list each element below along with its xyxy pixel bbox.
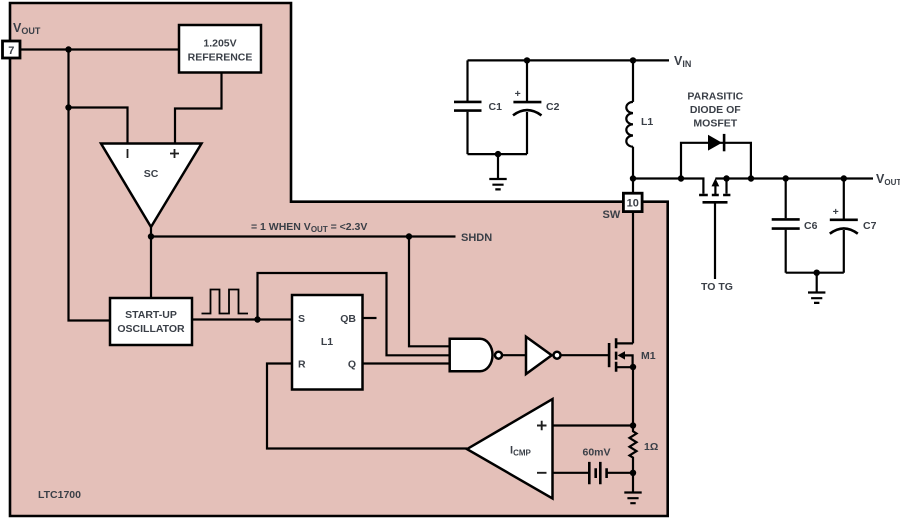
junction dot SW node [630, 175, 636, 181]
junction dot output gnd [814, 270, 820, 276]
svg-text:R: R [298, 359, 306, 371]
wire to SC minus input [69, 108, 128, 144]
svg-text:TO TG: TO TG [701, 281, 733, 293]
svg-text:= 1 WHEN VOUT = <2.3V: = 1 WHEN VOUT = <2.3V [251, 221, 367, 234]
NAND gate [450, 339, 493, 371]
wire Q to NAND [363, 362, 450, 364]
svg-text:OSCILLATOR: OSCILLATOR [117, 323, 185, 335]
svg-text:1.205V: 1.205V [203, 38, 236, 50]
svg-text:7: 7 [8, 45, 14, 57]
svg-text:PARASITIC: PARASITIC [687, 91, 743, 103]
inductor L1 [626, 60, 653, 193]
wire left rail down to oscillator [69, 50, 111, 321]
external MOSFET TO TG [699, 178, 733, 293]
svg-text:START-UP: START-UP [125, 309, 177, 321]
svg-text:SHDN: SHDN [461, 232, 492, 244]
wire SHDN to NAND [409, 237, 450, 347]
junction dot A [65, 46, 71, 52]
svg-text:MOSFET: MOSFET [693, 118, 737, 130]
junction dot sense bottom [630, 470, 636, 476]
svg-text:1Ω: 1Ω [644, 441, 658, 453]
pin 7 box [3, 41, 21, 58]
svg-text:10: 10 [627, 198, 639, 210]
wire pin7 to reference [20, 48, 179, 50]
SC minus mark [127, 149, 129, 158]
svg-text:+: + [515, 88, 521, 100]
svg-text:C2: C2 [546, 101, 560, 113]
ground input caps [489, 154, 506, 189]
svg-text:60mV: 60mV [582, 447, 610, 459]
svg-text:SW: SW [603, 209, 621, 221]
NAND output bubble [495, 352, 502, 359]
wire C6 C7 bottom rail [786, 272, 844, 274]
junction dot mosfet right [723, 175, 729, 181]
ICMP plus mark [537, 421, 547, 431]
svg-text:L1: L1 [321, 336, 333, 348]
svg-text:C6: C6 [804, 220, 818, 232]
oscillator box START-UP OSCILLATOR [110, 298, 192, 345]
wire inverter to M1 gate [561, 354, 609, 356]
junction dot S line [254, 316, 260, 322]
svg-text:DIODE OF: DIODE OF [690, 104, 741, 116]
wire QB stub [363, 317, 377, 319]
junction dot diode right [748, 175, 754, 181]
junction dot L1 top [630, 57, 636, 63]
top rail VIN [468, 59, 670, 61]
battery 60mV [553, 447, 634, 485]
wire SW node to MOSFET drain [633, 179, 703, 194]
wire SC apex to oscillator [150, 227, 152, 298]
junction dot SC apex [148, 233, 154, 239]
transistor M1 [609, 338, 656, 372]
inverter output bubble [554, 352, 561, 359]
junction dot diode left [678, 175, 684, 181]
capacitor C1 [454, 60, 502, 154]
wire M1 source to sense [632, 367, 634, 426]
pulse waveform symbol [202, 290, 249, 314]
SW pin 10 box [623, 193, 642, 211]
junction dot sense top [630, 422, 636, 428]
reference box U 1.205V REFERENCE [179, 25, 261, 73]
wire NAND to inverter [502, 354, 526, 356]
capacitor C7 polarized [830, 179, 877, 273]
svg-text:S: S [298, 313, 305, 325]
wire feedback top route to NAND [258, 273, 450, 355]
junction dot B [65, 104, 71, 110]
junction dot C2 top [524, 57, 530, 63]
parasitic diode branch [681, 134, 751, 179]
svg-text:L1: L1 [641, 116, 653, 128]
wire C1 C2 bottom rail [468, 153, 528, 155]
LTC1700 shaded IC region [10, 3, 668, 516]
comparator SC [101, 144, 202, 228]
ground below 1 ohm [624, 473, 641, 503]
svg-text:REFERENCE: REFERENCE [188, 52, 253, 64]
ground output caps [808, 273, 825, 303]
wire SHDN line [151, 235, 456, 237]
svg-text:C1: C1 [489, 101, 503, 113]
junction dot C7 top [841, 175, 847, 181]
svg-text:C7: C7 [863, 220, 877, 232]
svg-text:M1: M1 [641, 350, 656, 362]
junction dot SHDN [406, 233, 412, 239]
inverter buffer [526, 337, 552, 374]
capacitor C6 [772, 179, 818, 273]
latch L1 box [292, 295, 363, 390]
wire M1 drain from SW [632, 212, 634, 344]
svg-text:+: + [833, 206, 839, 218]
svg-text:LTC1700: LTC1700 [38, 489, 81, 501]
comparator ICMP [467, 399, 553, 499]
junction dot input gnd [495, 151, 501, 157]
wire R route from ICMP [267, 364, 467, 449]
wire oscillator output to latch S [192, 318, 292, 320]
wire reference to SC plus input [175, 73, 222, 144]
resistor 1 ohm [630, 426, 637, 473]
wire VOUT rail [715, 177, 873, 179]
junction dot C6 top [783, 175, 789, 181]
svg-text:SC: SC [144, 168, 159, 180]
svg-text:Q: Q [348, 359, 356, 371]
wire ICMP plus input [553, 424, 634, 426]
ICMP minus mark [537, 472, 547, 474]
capacitor C2 polarized [513, 60, 560, 154]
SC plus mark [170, 149, 179, 158]
svg-text:QB: QB [340, 313, 356, 325]
